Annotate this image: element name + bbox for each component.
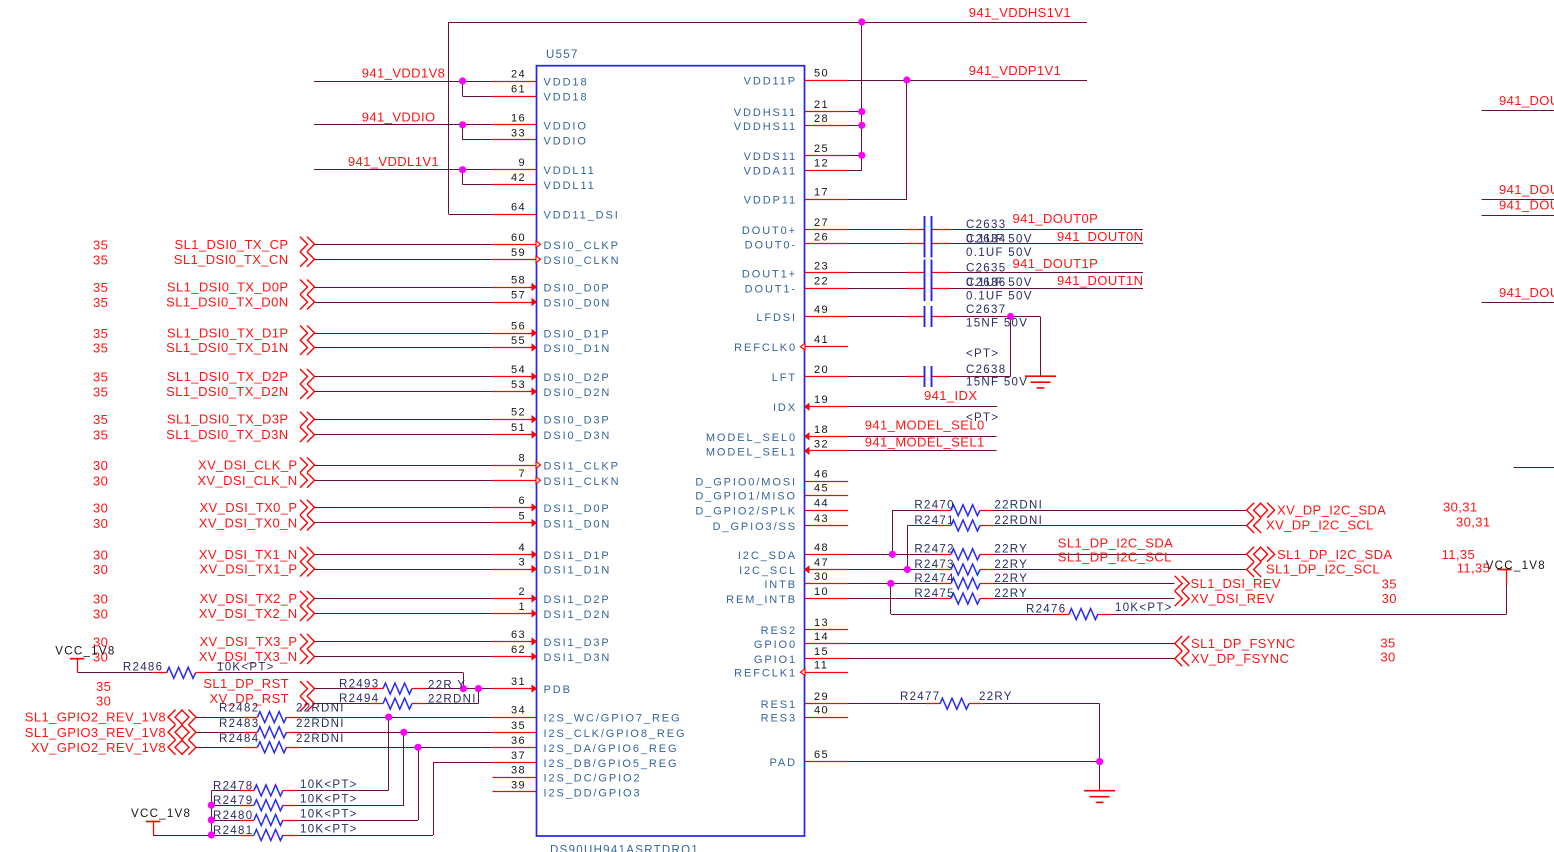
svg-text:32: 32	[814, 438, 829, 450]
svg-text:XV_DP_FSYNC: XV_DP_FSYNC	[1191, 651, 1289, 666]
svg-text:PAD: PAD	[769, 757, 797, 769]
svg-text:VDD11P: VDD11P	[744, 76, 797, 88]
svg-text:941_VDDL1V1: 941_VDDL1V1	[348, 154, 439, 169]
svg-text:15NF 50V: 15NF 50V	[966, 377, 1028, 389]
svg-text:34: 34	[511, 705, 526, 717]
svg-text:31: 31	[511, 676, 526, 688]
svg-text:SL1_DP_I2C_SCL: SL1_DP_I2C_SCL	[1266, 562, 1380, 577]
svg-text:XV_DSI_CLK_N: XV_DSI_CLK_N	[197, 473, 297, 488]
svg-text:SL1_GPIO3_REV_1V8: SL1_GPIO3_REV_1V8	[25, 725, 166, 740]
svg-text:941_IDX: 941_IDX	[924, 388, 977, 403]
svg-text:941_DOUT0P: 941_DOUT0P	[1013, 211, 1099, 226]
svg-text:30: 30	[93, 516, 108, 531]
svg-text:DSI0_D2N: DSI0_D2N	[544, 387, 612, 399]
svg-text:LFDSI: LFDSI	[756, 312, 797, 324]
svg-text:18: 18	[814, 424, 829, 436]
svg-text:VDDL11: VDDL11	[544, 165, 596, 177]
svg-text:941_DOUT0P: 941_DOUT0P	[1499, 93, 1554, 108]
svg-text:941_VDDHS1V1: 941_VDDHS1V1	[969, 5, 1071, 20]
svg-text:43: 43	[814, 513, 829, 525]
svg-text:REFCLK0: REFCLK0	[734, 342, 797, 354]
svg-text:VDDA11: VDDA11	[744, 166, 797, 178]
svg-text:35: 35	[93, 252, 108, 267]
svg-text:941_DOUT1N: 941_DOUT1N	[1057, 273, 1143, 288]
svg-text:941_VDDIO: 941_VDDIO	[362, 109, 436, 124]
svg-text:54: 54	[511, 364, 526, 376]
svg-text:C2635: C2635	[966, 263, 1006, 275]
svg-text:VDDHS11: VDDHS11	[734, 107, 797, 119]
svg-text:XV_DSI_TX0_N: XV_DSI_TX0_N	[199, 515, 298, 530]
svg-text:22RDNI: 22RDNI	[296, 733, 345, 745]
svg-text:22RY: 22RY	[994, 588, 1028, 600]
svg-text:R2494: R2494	[339, 693, 379, 705]
svg-text:17: 17	[814, 187, 829, 199]
svg-text:I2S_DB/GPIO5_REG: I2S_DB/GPIO5_REG	[544, 758, 679, 770]
svg-text:I2C_SCL: I2C_SCL	[739, 565, 797, 577]
svg-text:DOUT1+: DOUT1+	[742, 268, 797, 280]
svg-text:DSI0_D3N: DSI0_D3N	[544, 430, 612, 442]
svg-text:D_GPIO3/SS: D_GPIO3/SS	[713, 521, 797, 533]
svg-text:XV_GPIO2_REV_1V8: XV_GPIO2_REV_1V8	[31, 740, 166, 755]
svg-text:DSI1_D3N: DSI1_D3N	[544, 652, 612, 664]
svg-text:0.1UF 50V: 0.1UF 50V	[966, 277, 1033, 289]
svg-text:26: 26	[814, 231, 829, 243]
svg-text:941_VDD1V8: 941_VDD1V8	[362, 66, 446, 81]
svg-text:50: 50	[814, 68, 829, 80]
svg-text:IDX: IDX	[773, 402, 797, 414]
svg-text:SL1_DSI0_TX_D3P: SL1_DSI0_TX_D3P	[167, 412, 289, 427]
svg-text:65: 65	[814, 749, 829, 761]
svg-text:R2475: R2475	[914, 588, 954, 600]
svg-text:35: 35	[93, 370, 108, 385]
svg-text:DSI1_CLKN: DSI1_CLKN	[544, 476, 621, 488]
svg-text:DOUT0+: DOUT0+	[742, 225, 797, 237]
svg-text:941_VDDP1V1: 941_VDDP1V1	[969, 63, 1062, 78]
svg-text:36: 36	[511, 735, 526, 747]
svg-text:47: 47	[814, 557, 829, 569]
svg-text:14: 14	[814, 631, 829, 643]
svg-text:REFCLK1: REFCLK1	[734, 668, 797, 680]
svg-text:22RDNI: 22RDNI	[296, 718, 345, 730]
svg-text:XV_DSI_TX0_P: XV_DSI_TX0_P	[199, 500, 297, 515]
svg-text:64: 64	[511, 202, 526, 214]
svg-text:63: 63	[511, 629, 526, 641]
svg-text:61: 61	[511, 84, 526, 96]
svg-text:DSI1_CLKP: DSI1_CLKP	[544, 461, 620, 473]
svg-text:RES3: RES3	[761, 713, 797, 725]
svg-text:19: 19	[814, 394, 829, 406]
svg-text:35: 35	[96, 679, 111, 694]
svg-text:22RY: 22RY	[994, 544, 1028, 556]
svg-text:35: 35	[93, 428, 108, 443]
svg-text:C2638: C2638	[966, 364, 1006, 376]
svg-text:R2478: R2478	[213, 780, 253, 792]
svg-text:22RDNI: 22RDNI	[994, 515, 1043, 527]
svg-text:49: 49	[814, 304, 829, 316]
svg-text:30: 30	[93, 562, 108, 577]
svg-text:941_DOUT1N: 941_DOUT1N	[1499, 285, 1554, 300]
svg-text:R2470: R2470	[914, 500, 954, 512]
svg-text:941_DOUT0N: 941_DOUT0N	[1499, 182, 1554, 197]
svg-text:28: 28	[814, 113, 829, 125]
svg-text:SL1_DSI0_TX_D0P: SL1_DSI0_TX_D0P	[167, 280, 289, 295]
svg-text:11: 11	[814, 660, 828, 672]
svg-text:SL1_DSI0_TX_CN: SL1_DSI0_TX_CN	[174, 252, 289, 267]
svg-text:35: 35	[93, 280, 108, 295]
svg-text:VDDHS11: VDDHS11	[734, 121, 797, 133]
svg-text:35: 35	[93, 237, 108, 252]
svg-text:INTB: INTB	[764, 579, 797, 591]
svg-text:52: 52	[511, 407, 526, 419]
svg-text:SL1_DP_I2C_SCL: SL1_DP_I2C_SCL	[1058, 550, 1172, 565]
svg-text:30: 30	[93, 500, 108, 515]
svg-text:R2484: R2484	[219, 733, 259, 745]
svg-text:SL1_DSI_REV: SL1_DSI_REV	[1191, 576, 1281, 591]
svg-text:35: 35	[1380, 636, 1395, 651]
svg-text:GPIO0: GPIO0	[754, 639, 797, 651]
svg-text:R2476: R2476	[1026, 603, 1066, 615]
svg-text:15: 15	[814, 646, 829, 658]
svg-text:SL1_DSI0_TX_D2P: SL1_DSI0_TX_D2P	[167, 369, 289, 384]
svg-text:SL1_DSI0_TX_CP: SL1_DSI0_TX_CP	[175, 237, 289, 252]
svg-text:DSI1_D1P: DSI1_D1P	[544, 550, 611, 562]
svg-text:SL1_DSI0_TX_D1P: SL1_DSI0_TX_D1P	[167, 326, 289, 341]
svg-text:27: 27	[814, 217, 829, 229]
svg-text:23: 23	[814, 260, 829, 272]
svg-text:DSI0_CLKP: DSI0_CLKP	[544, 240, 620, 252]
svg-text:I2S_DC/GPIO2: I2S_DC/GPIO2	[544, 773, 642, 785]
svg-text:DSI0_D0P: DSI0_D0P	[544, 283, 611, 295]
svg-text:30,31: 30,31	[1456, 515, 1491, 530]
svg-text:DSI0_CLKN: DSI0_CLKN	[544, 255, 621, 267]
svg-text:0.1UF 50V: 0.1UF 50V	[966, 234, 1033, 246]
svg-text:35: 35	[93, 295, 108, 310]
svg-text:SL1_DSI0_TX_D2N: SL1_DSI0_TX_D2N	[166, 384, 288, 399]
svg-text:24: 24	[511, 69, 526, 81]
svg-text:XV_DSI_TX3_P: XV_DSI_TX3_P	[199, 634, 297, 649]
svg-text:PDB: PDB	[544, 684, 572, 696]
svg-text:XV_DSI_TX1_P: XV_DSI_TX1_P	[199, 562, 297, 577]
svg-text:22RY: 22RY	[979, 691, 1013, 703]
svg-text:53: 53	[511, 379, 526, 391]
svg-text:D_GPIO0/MOSI: D_GPIO0/MOSI	[695, 477, 797, 489]
svg-text:45: 45	[814, 483, 829, 495]
svg-text:MODEL_SEL1: MODEL_SEL1	[706, 446, 797, 458]
svg-text:22RDNI: 22RDNI	[994, 500, 1043, 512]
svg-text:R2479: R2479	[213, 795, 253, 807]
svg-text:LFT: LFT	[772, 372, 797, 384]
svg-text:XV_DP_I2C_SCL: XV_DP_I2C_SCL	[1266, 518, 1374, 533]
svg-text:REM_INTB: REM_INTB	[726, 594, 797, 606]
svg-text:I2S_CLK/GPIO8_REG: I2S_CLK/GPIO8_REG	[544, 728, 687, 740]
svg-text:VCC_1V8: VCC_1V8	[131, 808, 191, 820]
svg-text:55: 55	[511, 335, 526, 347]
svg-text:VDD18: VDD18	[544, 92, 589, 104]
svg-text:56: 56	[511, 321, 526, 333]
svg-text:13: 13	[814, 617, 829, 629]
svg-text:30: 30	[814, 571, 829, 583]
svg-text:VDD18: VDD18	[544, 77, 589, 89]
svg-text:38: 38	[511, 765, 526, 777]
svg-text:21: 21	[814, 99, 829, 111]
svg-text:10K<PT>: 10K<PT>	[1115, 602, 1173, 614]
svg-text:22RY: 22RY	[994, 573, 1028, 585]
svg-text:60: 60	[511, 232, 526, 244]
svg-text:35: 35	[511, 720, 526, 732]
svg-text:1: 1	[518, 601, 526, 613]
svg-text:12: 12	[814, 158, 829, 170]
svg-text:D_GPIO1/MISO: D_GPIO1/MISO	[695, 491, 797, 503]
svg-text:SL1_DSI0_TX_D1N: SL1_DSI0_TX_D1N	[166, 340, 288, 355]
svg-text:XV_DP_I2C_SDA: XV_DP_I2C_SDA	[1277, 503, 1386, 518]
svg-text:10K<PT>: 10K<PT>	[300, 809, 358, 821]
svg-text:VDDIO: VDDIO	[544, 135, 588, 147]
svg-text:SL1_DP_I2C_SDA: SL1_DP_I2C_SDA	[1277, 547, 1392, 562]
svg-text:DSI0_D1P: DSI0_D1P	[544, 329, 611, 341]
svg-text:DSI1_D0P: DSI1_D0P	[544, 503, 611, 515]
svg-text:DS90UH941ASRTDRQ1: DS90UH941ASRTDRQ1	[550, 845, 699, 852]
svg-text:SL1_DSI0_TX_D0N: SL1_DSI0_TX_D0N	[166, 295, 288, 310]
svg-text:57: 57	[511, 290, 526, 302]
svg-text:I2S_DA/GPIO6_REG: I2S_DA/GPIO6_REG	[544, 743, 679, 755]
svg-text:10K<PT>: 10K<PT>	[300, 824, 358, 836]
svg-text:62: 62	[511, 644, 526, 656]
svg-text:29: 29	[814, 691, 829, 703]
svg-text:44: 44	[814, 498, 829, 510]
svg-text:941_DOUT0N: 941_DOUT0N	[1057, 229, 1143, 244]
svg-text:VCC_1V8: VCC_1V8	[1486, 560, 1546, 572]
svg-text:10K<PT>: 10K<PT>	[217, 662, 275, 674]
svg-text:9: 9	[518, 157, 526, 169]
svg-text:46: 46	[814, 469, 829, 481]
svg-text:DSI1_D2P: DSI1_D2P	[544, 594, 611, 606]
svg-text:R2471: R2471	[914, 515, 954, 527]
svg-text:3: 3	[518, 557, 526, 569]
svg-text:22RDNI: 22RDNI	[428, 694, 477, 706]
svg-text:SL1_GPIO2_REV_1V8: SL1_GPIO2_REV_1V8	[25, 710, 166, 725]
svg-text:DSI0_D0N: DSI0_D0N	[544, 298, 612, 310]
svg-text:941_MODEL_SEL0: 941_MODEL_SEL0	[865, 418, 985, 433]
svg-text:2: 2	[518, 586, 526, 598]
svg-text:5: 5	[518, 510, 526, 522]
svg-text:R2477: R2477	[900, 691, 940, 703]
svg-text:DSI1_D2N: DSI1_D2N	[544, 609, 612, 621]
svg-text:51: 51	[511, 422, 526, 434]
svg-text:VCC_1V8: VCC_1V8	[55, 646, 115, 658]
svg-text:10: 10	[814, 586, 829, 598]
svg-text:XV_DSI_REV: XV_DSI_REV	[1191, 591, 1275, 606]
svg-text:XV_DSI_CLK_P: XV_DSI_CLK_P	[198, 458, 297, 473]
svg-text:8: 8	[518, 453, 526, 465]
svg-text:MODEL_SEL0: MODEL_SEL0	[706, 432, 797, 444]
svg-text:DSI1_D3P: DSI1_D3P	[544, 637, 611, 649]
svg-text:SL1_DSI0_TX_D3N: SL1_DSI0_TX_D3N	[166, 427, 288, 442]
svg-text:R2481: R2481	[213, 825, 253, 837]
svg-text:DSI0_D2P: DSI0_D2P	[544, 372, 611, 384]
svg-text:4: 4	[518, 542, 526, 554]
svg-text:10K<PT>: 10K<PT>	[300, 794, 358, 806]
svg-text:VDDP11: VDDP11	[744, 195, 797, 207]
svg-text:R2493: R2493	[339, 679, 379, 691]
svg-text:DSI1_D0N: DSI1_D0N	[544, 518, 612, 530]
svg-text:GPIO1: GPIO1	[754, 654, 797, 666]
svg-text:30: 30	[1382, 591, 1397, 606]
svg-text:6: 6	[518, 495, 526, 507]
svg-text:R2473: R2473	[914, 559, 954, 571]
svg-text:DSI0_D3P: DSI0_D3P	[544, 415, 611, 427]
svg-text:25: 25	[814, 143, 829, 155]
svg-text:R2474: R2474	[914, 573, 954, 585]
svg-text:<PT>: <PT>	[966, 348, 999, 360]
svg-text:58: 58	[511, 275, 526, 287]
svg-text:16: 16	[511, 112, 526, 124]
svg-text:40: 40	[814, 705, 829, 717]
svg-text:37: 37	[511, 750, 526, 762]
svg-text:30: 30	[96, 694, 111, 709]
svg-text:39: 39	[511, 779, 526, 791]
svg-text:R2482: R2482	[219, 703, 259, 715]
svg-text:30: 30	[1380, 650, 1395, 665]
svg-text:30: 30	[93, 548, 108, 563]
svg-text:R2486: R2486	[123, 662, 163, 674]
svg-text:41: 41	[814, 334, 829, 346]
svg-text:VDDIO: VDDIO	[544, 120, 588, 132]
svg-text:DSI1_D1N: DSI1_D1N	[544, 565, 612, 577]
svg-text:DSI0_D1N: DSI0_D1N	[544, 343, 612, 355]
svg-text:U557: U557	[546, 49, 579, 61]
svg-text:10K<PT>: 10K<PT>	[300, 779, 358, 791]
svg-text:20: 20	[814, 364, 829, 376]
svg-text:941_MODEL_SEL1: 941_MODEL_SEL1	[865, 435, 985, 450]
svg-text:SL1_DP_FSYNC: SL1_DP_FSYNC	[1191, 636, 1296, 651]
svg-text:XV_DSI_TX2_P: XV_DSI_TX2_P	[199, 591, 297, 606]
svg-text:DOUT0-: DOUT0-	[745, 239, 797, 251]
svg-text:30: 30	[93, 592, 108, 607]
svg-text:C2633: C2633	[966, 219, 1006, 231]
svg-text:VDDS11: VDDS11	[744, 151, 797, 163]
svg-text:SL1_DP_RST: SL1_DP_RST	[203, 676, 289, 691]
svg-text:SL1_DP_I2C_SDA: SL1_DP_I2C_SDA	[1058, 536, 1173, 551]
svg-text:30,31: 30,31	[1443, 500, 1478, 515]
svg-text:XV_DSI_TX2_N: XV_DSI_TX2_N	[199, 606, 298, 621]
svg-text:941_DOUT1P: 941_DOUT1P	[1499, 198, 1554, 213]
svg-text:22RY: 22RY	[994, 559, 1028, 571]
svg-text:C2637: C2637	[966, 304, 1006, 316]
svg-text:30: 30	[93, 458, 108, 473]
svg-text:35: 35	[93, 412, 108, 427]
svg-text:30: 30	[93, 607, 108, 622]
svg-text:48: 48	[814, 542, 829, 554]
svg-text:RES2: RES2	[761, 625, 797, 637]
svg-text:I2C_SDA: I2C_SDA	[738, 550, 797, 562]
svg-text:0.1UF 50V: 0.1UF 50V	[966, 291, 1033, 303]
svg-text:35: 35	[1382, 577, 1397, 592]
svg-text:0.1UF 50V: 0.1UF 50V	[966, 247, 1033, 259]
svg-text:22: 22	[814, 276, 829, 288]
svg-text:R2480: R2480	[213, 810, 253, 822]
svg-text:30: 30	[93, 473, 108, 488]
svg-text:RES1: RES1	[761, 699, 797, 711]
svg-text:15NF 50V: 15NF 50V	[966, 317, 1028, 329]
svg-text:VDD11_DSI: VDD11_DSI	[544, 210, 620, 222]
svg-text:I2S_DD/GPIO3: I2S_DD/GPIO3	[544, 787, 642, 799]
svg-text:R2472: R2472	[914, 544, 954, 556]
svg-text:22R Y: 22R Y	[428, 680, 466, 692]
svg-text:XV_DSI_TX1_N: XV_DSI_TX1_N	[199, 547, 298, 562]
svg-text:VDDL11: VDDL11	[544, 180, 596, 192]
svg-text:59: 59	[511, 247, 526, 259]
svg-text:35: 35	[93, 341, 108, 356]
svg-text:7: 7	[518, 468, 526, 480]
svg-text:22RDNI: 22RDNI	[296, 703, 345, 715]
svg-text:35: 35	[93, 326, 108, 341]
svg-text:42: 42	[511, 172, 526, 184]
svg-text:33: 33	[511, 127, 526, 139]
svg-text:D_GPIO2/SPLK: D_GPIO2/SPLK	[695, 506, 797, 518]
svg-text:R2483: R2483	[219, 718, 259, 730]
svg-text:I2S_WC/GPIO7_REG: I2S_WC/GPIO7_REG	[544, 713, 682, 725]
svg-text:35: 35	[93, 385, 108, 400]
svg-text:DOUT1-: DOUT1-	[745, 284, 797, 296]
